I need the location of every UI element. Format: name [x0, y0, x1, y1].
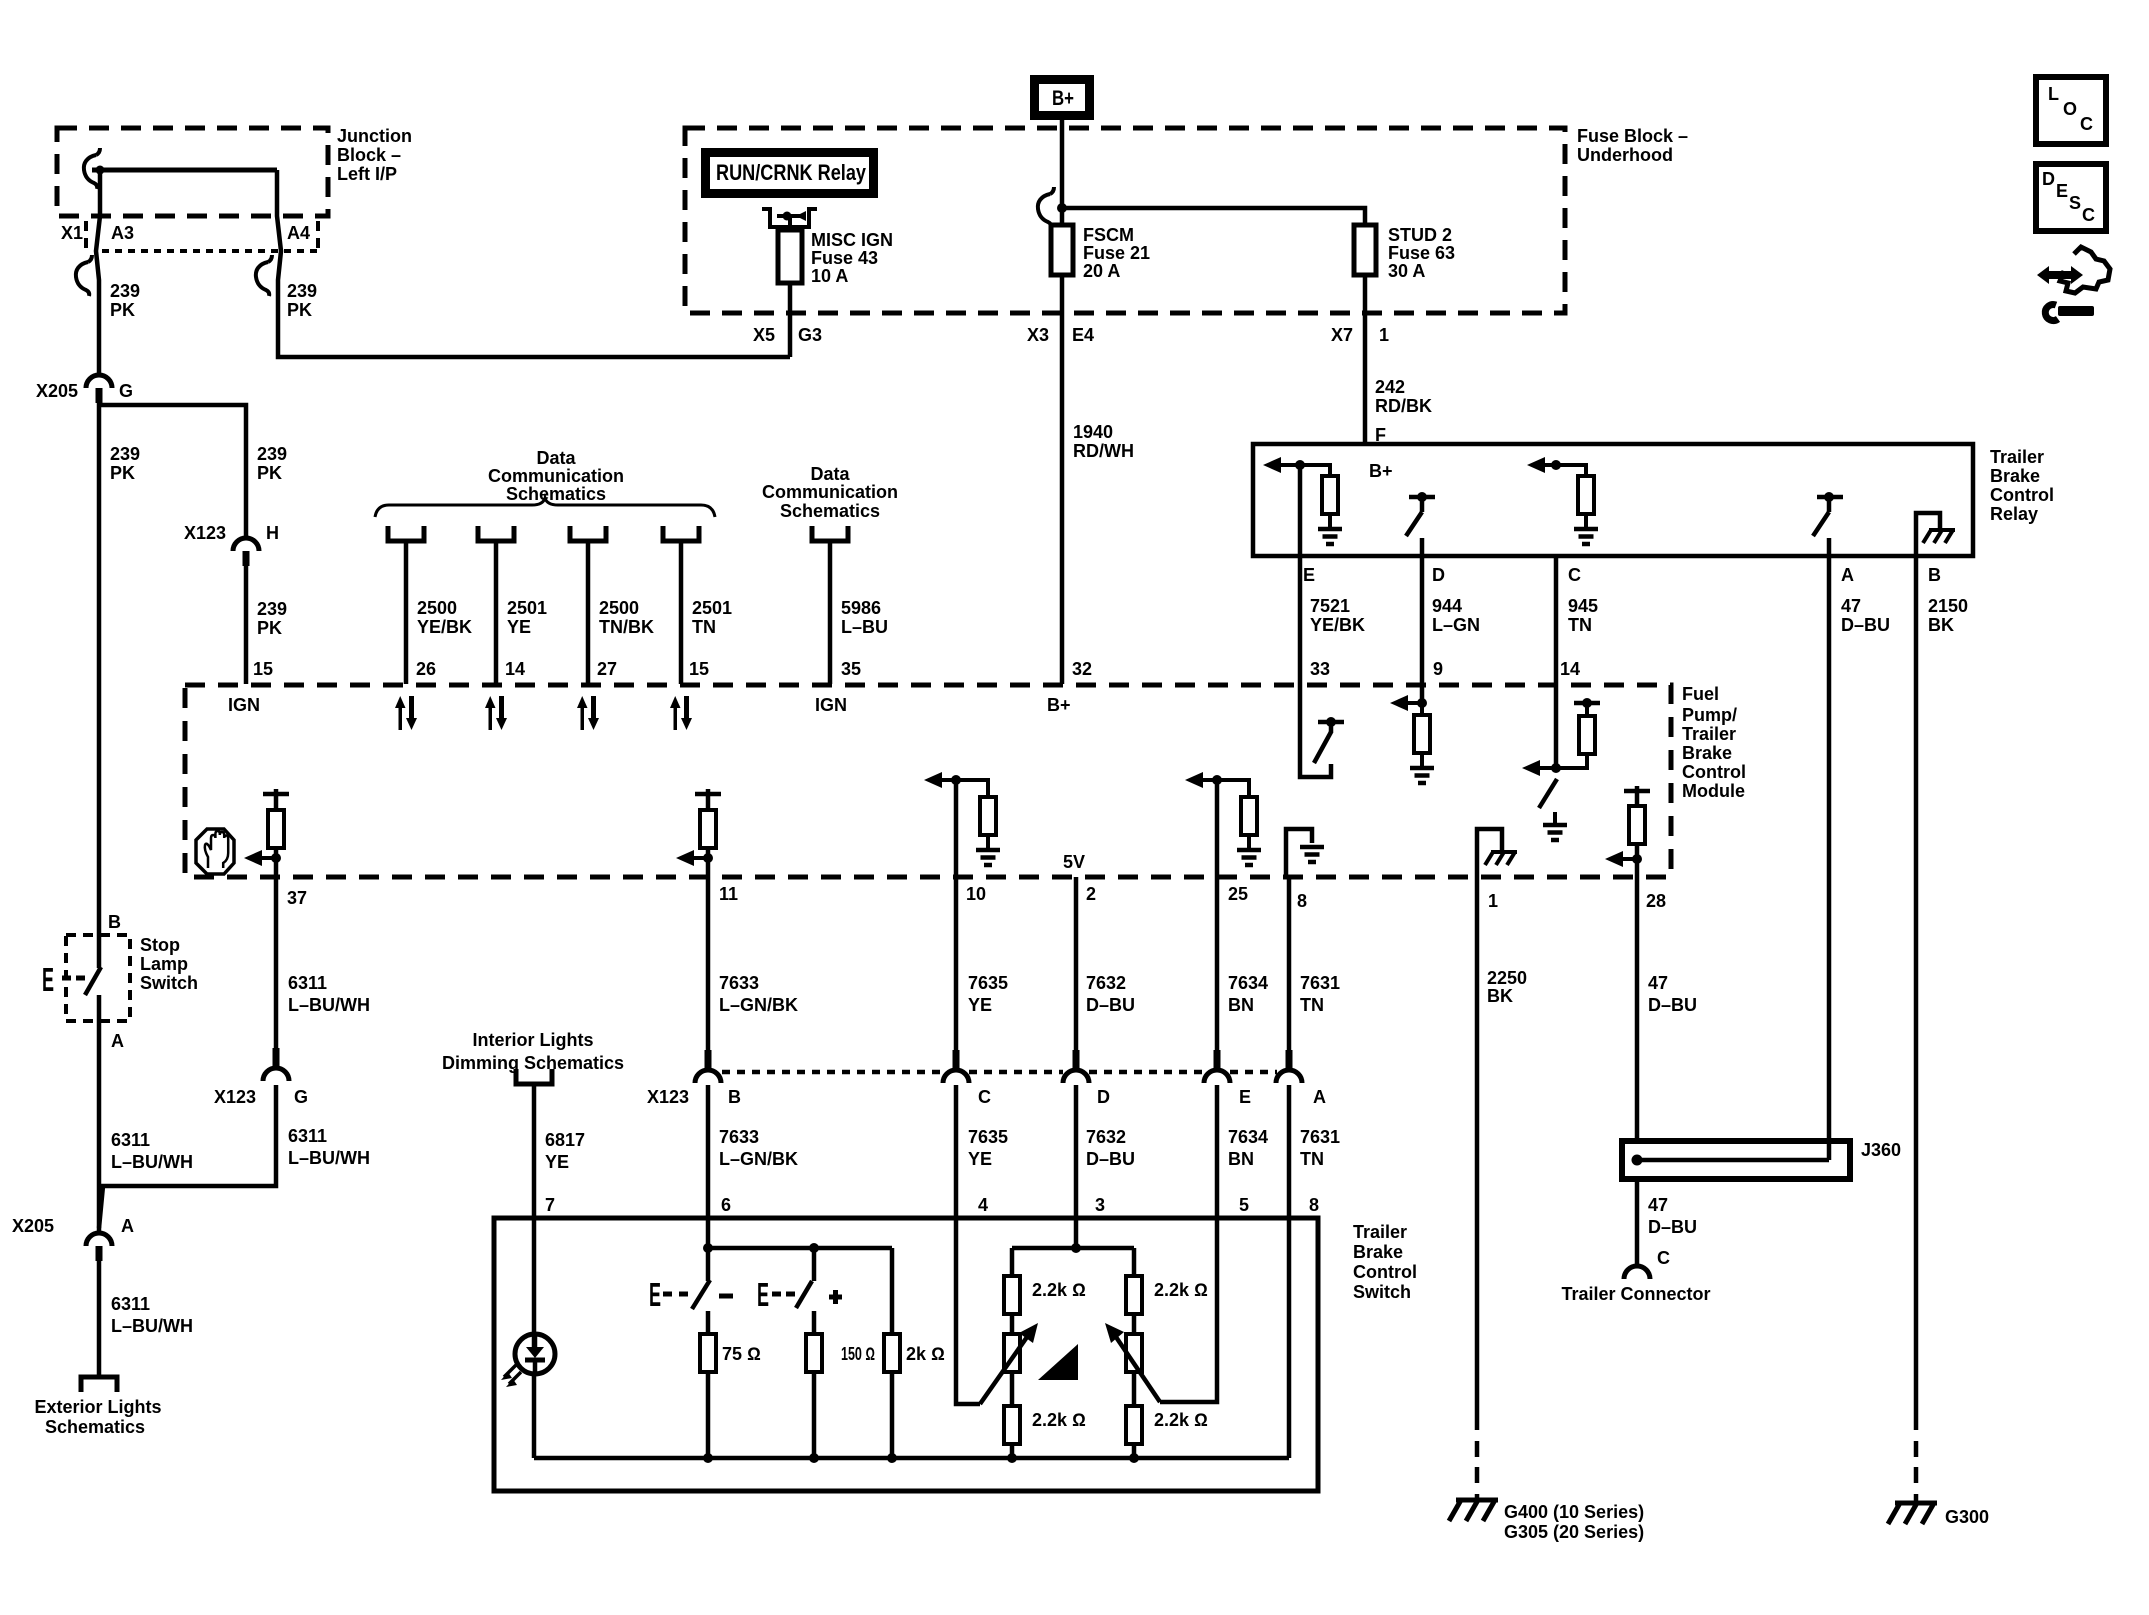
svg-text:Dimming Schematics: Dimming Schematics [442, 1053, 624, 1073]
wire STUD2 down to relay F [1363, 275, 1368, 444]
svg-text:C: C [2080, 114, 2093, 134]
resistor 2k ohm [890, 1248, 895, 1334]
svg-text:239: 239 [287, 281, 317, 301]
hook at B+ junction [1038, 187, 1054, 228]
terminal interior lights [516, 1069, 552, 1084]
svg-text:B+: B+ [1052, 87, 1074, 110]
svg-text:944: 944 [1432, 596, 1462, 616]
svg-text:YE: YE [545, 1152, 569, 1172]
trailer connector C [1624, 1266, 1650, 1279]
svg-text:7635: 7635 [968, 973, 1008, 993]
svg-text:BK: BK [1928, 615, 1954, 635]
wire 2500 TN/BK [586, 543, 591, 684]
wire B+ junction to STUD2 [1062, 208, 1365, 225]
connector X123 A [1276, 1050, 1302, 1083]
svg-text:7: 7 [545, 1195, 555, 1215]
svg-text:J360: J360 [1861, 1140, 1901, 1160]
svg-text:6311: 6311 [288, 1126, 327, 1146]
RUN/CRNK relay bold box [706, 153, 874, 194]
svg-text:C: C [978, 1087, 991, 1107]
pin 10 group: arrow dot resistor ground [951, 775, 961, 785]
left pot chain: 2.2k top [1010, 1248, 1015, 1276]
right pot variable element [1126, 1334, 1142, 1372]
wire X123-G to X205-A join [99, 1085, 276, 1228]
svg-text:Schematics: Schematics [45, 1417, 145, 1437]
right pot chain: 2.2k top [1132, 1248, 1137, 1276]
svg-text:RUN/CRNK Relay: RUN/CRNK Relay [716, 160, 867, 185]
wire pin28 down to J360 [1635, 877, 1640, 1141]
svg-text:X1: X1 [61, 223, 83, 243]
svg-text:8: 8 [1297, 891, 1307, 911]
wire fuse down to junction row [788, 283, 793, 357]
svg-text:H: H [266, 523, 279, 543]
wire pin 25 down [1215, 780, 1220, 877]
right wiper from pin5 [1160, 1218, 1217, 1402]
svg-text:7632: 7632 [1086, 1127, 1126, 1147]
bus bottom [534, 1456, 1289, 1461]
svg-text:47: 47 [1841, 596, 1861, 616]
svg-text:S: S [2069, 193, 2081, 213]
svg-text:G: G [119, 381, 133, 401]
service icon: double arrow with outline and wrench [2037, 266, 2083, 284]
svg-text:5986: 5986 [841, 598, 881, 618]
svg-text:MISC IGN: MISC IGN [811, 230, 893, 250]
wire 2501 TN [679, 543, 684, 684]
fuel pump / trailer brake control module dashed box [185, 685, 1671, 877]
LED indicator [515, 1334, 555, 1374]
resistor (relay coil E) [1322, 476, 1338, 514]
svg-text:PK: PK [110, 300, 135, 320]
wire J360 down to trailer connector [1635, 1179, 1640, 1266]
svg-text:2500: 2500 [417, 598, 457, 618]
svg-text:X123: X123 [647, 1087, 689, 1107]
svg-text:2k Ω: 2k Ω [906, 1344, 945, 1364]
svg-text:5V: 5V [1063, 852, 1085, 872]
clip hook at X1 below [76, 255, 92, 296]
wire LED to bus [532, 1374, 537, 1458]
wire pin 10 down [954, 780, 959, 877]
wires X123 row down to switch [706, 1085, 711, 1218]
wire pin10 to X123-C [954, 877, 959, 1050]
svg-text:Pump/: Pump/ [1682, 705, 1737, 725]
svg-text:TN: TN [1300, 995, 1324, 1015]
pin 8 internal ground [1286, 829, 1312, 877]
svg-text:2501: 2501 [692, 598, 732, 618]
wire pin8 to bus [1287, 1218, 1292, 1458]
svg-text:TN: TN [692, 617, 716, 637]
svg-text:2.2k Ω: 2.2k Ω [1032, 1410, 1086, 1430]
svg-text:Communication: Communication [762, 482, 898, 502]
svg-text:7633: 7633 [719, 973, 759, 993]
svg-text:Fuse Block –: Fuse Block – [1577, 126, 1688, 146]
svg-text:239: 239 [257, 599, 287, 619]
svg-text:YE: YE [968, 1149, 992, 1169]
clip hook at A4 below [256, 255, 272, 296]
svg-text:5: 5 [1239, 1195, 1249, 1215]
svg-text:7633: 7633 [719, 1127, 759, 1147]
svg-text:L–BU/WH: L–BU/WH [288, 995, 370, 1015]
svg-text:6: 6 [721, 1195, 731, 1215]
wire A3 down to X205-G [96, 170, 100, 374]
ground G400 [1449, 1500, 1498, 1521]
svg-text:X3: X3 [1027, 325, 1049, 345]
svg-text:PK: PK [110, 463, 135, 483]
svg-text:B+: B+ [1047, 695, 1071, 715]
wire from X205-G down and branch right [97, 403, 102, 968]
svg-text:2: 2 [1086, 884, 1096, 904]
terminal data comm 3 [570, 526, 606, 541]
svg-text:Trailer: Trailer [1353, 1222, 1407, 1242]
pot top bus [1074, 1218, 1079, 1248]
pin 9 internal: arrow dot resistor ground [1417, 698, 1427, 708]
svg-text:1: 1 [1488, 891, 1498, 911]
svg-text:14: 14 [1560, 659, 1580, 679]
svg-text:Control: Control [1682, 762, 1746, 782]
svg-text:Stop: Stop [140, 935, 180, 955]
svg-text:7631: 7631 [1300, 973, 1340, 993]
svg-text:L–GN: L–GN [1432, 615, 1480, 635]
pin 33 internal switch [1300, 685, 1331, 777]
svg-text:A: A [1313, 1087, 1326, 1107]
connector X205 A [86, 1233, 112, 1261]
svg-text:2501: 2501 [507, 598, 547, 618]
svg-text:L–BU: L–BU [841, 617, 888, 637]
wire D relay to module 9 [1420, 556, 1425, 703]
svg-text:Junction: Junction [337, 126, 412, 146]
ramp triangle [1038, 1344, 1078, 1380]
relay output bracket [764, 209, 815, 227]
svg-text:11: 11 [719, 884, 738, 904]
svg-text:239: 239 [110, 444, 140, 464]
svg-text:A: A [111, 1031, 124, 1051]
svg-text:Brake: Brake [1682, 743, 1732, 763]
ground (relay C) [1574, 529, 1598, 544]
connector X205 G [86, 375, 112, 403]
svg-text:Brake: Brake [1353, 1242, 1403, 1262]
svg-text:2500: 2500 [599, 598, 639, 618]
node junction dot A3 [96, 166, 105, 175]
svg-text:3: 3 [1095, 1195, 1105, 1215]
svg-text:YE/BK: YE/BK [417, 617, 472, 637]
svg-text:BK: BK [1487, 986, 1513, 1006]
svg-text:2150: 2150 [1928, 596, 1968, 616]
svg-text:PK: PK [257, 618, 282, 638]
svg-text:E: E [42, 961, 54, 998]
connector X123 D [1063, 1050, 1089, 1083]
svg-text:E: E [757, 1276, 769, 1313]
right pot 2.2k bottom [1126, 1406, 1142, 1444]
DESC box [2036, 164, 2106, 231]
svg-text:YE: YE [968, 995, 992, 1015]
svg-text:L–BU/WH: L–BU/WH [111, 1152, 193, 1172]
stop octagon with hand [196, 829, 234, 874]
svg-text:6311: 6311 [111, 1130, 150, 1150]
svg-text:8: 8 [1309, 1195, 1319, 1215]
svg-text:14: 14 [505, 659, 525, 679]
wire below blade [97, 995, 102, 1232]
svg-text:30 A: 30 A [1388, 261, 1425, 281]
splice pack J360 [1622, 1141, 1850, 1179]
svg-text:37: 37 [287, 888, 307, 908]
relay switch A [1817, 495, 1843, 500]
svg-text:7521: 7521 [1310, 596, 1350, 616]
svg-text:A4: A4 [287, 223, 310, 243]
svg-text:IGN: IGN [228, 695, 260, 715]
svg-text:G3: G3 [798, 325, 822, 345]
svg-text:6311: 6311 [288, 973, 327, 993]
connector row X1 dashes [84, 221, 88, 248]
svg-text:X205: X205 [36, 381, 78, 401]
left pot 2.2k bottom [1004, 1406, 1020, 1444]
wire pin7 to LED [532, 1218, 537, 1352]
ground G300 [1888, 1503, 1937, 1524]
connector X123 H [233, 538, 259, 566]
svg-text:Fuse 63: Fuse 63 [1388, 243, 1455, 263]
svg-text:L–BU/WH: L–BU/WH [288, 1148, 370, 1168]
svg-text:D–BU: D–BU [1086, 1149, 1135, 1169]
pin 25 group [1212, 775, 1222, 785]
wire bracket to fuse [788, 217, 792, 230]
wire A4 down then right to fuse X5/G3 [277, 170, 790, 357]
relay E: arrow + dot [1263, 457, 1281, 473]
svg-text:TN: TN [1568, 615, 1592, 635]
svg-text:239: 239 [110, 281, 140, 301]
svg-text:X7: X7 [1331, 325, 1353, 345]
svg-text:Underhood: Underhood [1577, 145, 1673, 165]
svg-text:FSCM: FSCM [1083, 225, 1134, 245]
svg-text:4: 4 [978, 1195, 988, 1215]
svg-text:7634: 7634 [1228, 973, 1268, 993]
svg-text:32: 32 [1072, 659, 1092, 679]
resistor (relay coil C) [1578, 476, 1594, 514]
svg-text:47: 47 [1648, 1195, 1668, 1215]
svg-text:E: E [1239, 1087, 1251, 1107]
svg-text:PK: PK [287, 300, 312, 320]
svg-text:E: E [2056, 181, 2068, 201]
wire below X205-A [97, 1261, 102, 1375]
svg-text:26: 26 [416, 659, 436, 679]
arrow left at 11 [690, 856, 708, 860]
svg-text:Fuse 21: Fuse 21 [1083, 243, 1150, 263]
stop lamp switch blade [85, 967, 101, 995]
svg-text:L–BU/WH: L–BU/WH [111, 1316, 193, 1336]
svg-text:28: 28 [1646, 891, 1666, 911]
trailer brake control switch box [494, 1218, 1318, 1491]
svg-text:D–BU: D–BU [1086, 995, 1135, 1015]
svg-text:E: E [649, 1276, 661, 1313]
svg-text:20 A: 20 A [1083, 261, 1120, 281]
wire pin1 down to G400 [1475, 877, 1480, 1430]
svg-text:X123: X123 [214, 1087, 256, 1107]
svg-text:Exterior Lights: Exterior Lights [34, 1397, 161, 1417]
svg-text:D: D [2042, 169, 2055, 189]
svg-text:D: D [1097, 1087, 1110, 1107]
node B+ junction dot [1057, 203, 1067, 213]
svg-text:D–BU: D–BU [1648, 1217, 1697, 1237]
svg-text:1: 1 [1379, 325, 1389, 345]
svg-text:33: 33 [1310, 659, 1330, 679]
svg-text:C: C [1657, 1248, 1670, 1268]
fuse FSCM Fuse 21 20A [1051, 225, 1073, 275]
svg-text:RD/WH: RD/WH [1073, 441, 1134, 461]
svg-text:B: B [1928, 565, 1941, 585]
svg-text:9: 9 [1433, 659, 1443, 679]
fuse STUD 2 Fuse 63 30A [1354, 225, 1376, 275]
wire pin11 to X123-B [706, 877, 711, 1050]
svg-text:X123: X123 [184, 523, 226, 543]
wire 6817 YE [532, 1086, 537, 1218]
B+ terminal box [1035, 80, 1090, 116]
svg-text:47: 47 [1648, 973, 1668, 993]
svg-text:7632: 7632 [1086, 973, 1126, 993]
svg-text:RD/BK: RD/BK [1375, 396, 1432, 416]
svg-text:Schematics: Schematics [506, 484, 606, 504]
svg-text:35: 35 [841, 659, 861, 679]
svg-text:2.2k Ω: 2.2k Ω [1032, 1280, 1086, 1300]
svg-text:Left I/P: Left I/P [337, 164, 397, 184]
relay switch D [1409, 495, 1435, 500]
svg-text:O: O [2063, 99, 2077, 119]
pin 28 internal resistor arrow [1624, 789, 1650, 794]
terminal data comm right [812, 526, 848, 541]
svg-text:G400 (10 Series): G400 (10 Series) [1504, 1502, 1644, 1522]
svg-text:Schematics: Schematics [780, 501, 880, 521]
left pot variable element [1004, 1334, 1020, 1372]
svg-text:TN/BK: TN/BK [599, 617, 654, 637]
svg-text:C: C [1568, 565, 1581, 585]
svg-text:75 Ω: 75 Ω [722, 1344, 761, 1364]
X123 row dotted link [722, 1070, 1277, 1075]
terminal data comm 4 [663, 526, 699, 541]
svg-text:10: 10 [966, 884, 986, 904]
svg-text:A3: A3 [111, 223, 134, 243]
svg-text:B: B [728, 1087, 741, 1107]
svg-text:G: G [294, 1087, 308, 1107]
svg-text:7631: 7631 [1300, 1127, 1340, 1147]
svg-text:IGN: IGN [815, 695, 847, 715]
wire E relay to module 33 [1298, 465, 1303, 685]
svg-text:7635: 7635 [968, 1127, 1008, 1147]
svg-text:G305 (20 Series): G305 (20 Series) [1504, 1522, 1644, 1542]
connector X123 G [263, 1048, 289, 1081]
wire C relay to module 14 [1554, 556, 1559, 768]
svg-text:STUD 2: STUD 2 [1388, 225, 1452, 245]
svg-text:6817: 6817 [545, 1130, 585, 1150]
svg-text:Trailer: Trailer [1990, 447, 2044, 467]
svg-text:Block –: Block – [337, 145, 401, 165]
fuse block underhood dashed box [685, 128, 1565, 313]
svg-text:Brake: Brake [1990, 466, 2040, 486]
pin 14 internal: dot arrow resistor switch ground [1551, 763, 1561, 773]
pin 1 internal chassis ground [1477, 829, 1502, 877]
svg-text:10 A: 10 A [811, 266, 848, 286]
svg-text:Control: Control [1353, 1262, 1417, 1282]
wire pin2 to X123-D [1074, 877, 1079, 1050]
terminal data comm 2 [478, 526, 514, 541]
svg-text:TN: TN [1300, 1149, 1324, 1169]
svg-text:B: B [108, 912, 121, 932]
trailer brake control relay box [1253, 444, 1973, 556]
svg-text:BN: BN [1228, 1149, 1254, 1169]
svg-text:2.2k Ω: 2.2k Ω [1154, 1280, 1208, 1300]
svg-text:Interior Lights: Interior Lights [473, 1030, 594, 1050]
svg-text:Trailer Connector: Trailer Connector [1561, 1284, 1710, 1304]
svg-text:1940: 1940 [1073, 422, 1113, 442]
wire A relay down to J360 [1827, 556, 1832, 1160]
connector X123 C [943, 1050, 969, 1083]
svg-text:Data: Data [536, 448, 576, 468]
clip hook at A3 top [84, 148, 100, 189]
svg-text:150 Ω: 150 Ω [841, 1344, 875, 1364]
svg-text:Switch: Switch [1353, 1282, 1411, 1302]
wire 37 to X123-G [274, 877, 279, 1050]
svg-text:15: 15 [253, 659, 273, 679]
relay B chassis ground [1916, 513, 1940, 556]
svg-text:Lamp: Lamp [140, 954, 188, 974]
svg-text:Trailer: Trailer [1682, 724, 1736, 744]
wire: junction block internal horizontal [92, 168, 277, 173]
svg-text:945: 945 [1568, 596, 1598, 616]
wire 5986 L-BU [828, 543, 833, 684]
svg-text:X5: X5 [753, 325, 775, 345]
svg-text:2250: 2250 [1487, 968, 1527, 988]
svg-text:L–GN/BK: L–GN/BK [719, 1149, 798, 1169]
svg-text:D–BU: D–BU [1841, 615, 1890, 635]
relay C: arrow + dot [1527, 457, 1545, 473]
wire B+ down [1060, 114, 1065, 225]
svg-text:239: 239 [257, 444, 287, 464]
svg-text:YE: YE [507, 617, 531, 637]
connector X123 E [1204, 1050, 1230, 1083]
wire pin25 to X123-E [1215, 877, 1220, 1050]
pin 37 resistor with pullup bar [263, 792, 289, 797]
resistor 75 ohm [706, 1311, 711, 1334]
svg-text:D–BU: D–BU [1648, 995, 1697, 1015]
fuse MISC IGN Fuse 43 10A [778, 230, 802, 283]
junction block - left I/P dashed box [57, 128, 328, 216]
stop lamp switch dashed box [66, 935, 130, 1021]
svg-text:Module: Module [1682, 781, 1745, 801]
wire 2501 YE [494, 543, 499, 684]
svg-text:L: L [2048, 84, 2059, 104]
wire pin8 to X123-A [1287, 877, 1292, 1050]
curly brace [375, 498, 715, 517]
svg-text:B+: B+ [1369, 461, 1393, 481]
wire B relay down to G300 [1914, 556, 1919, 1430]
svg-text:BN: BN [1228, 995, 1254, 1015]
svg-text:E: E [1303, 565, 1315, 585]
arrow left at 37 [258, 856, 276, 860]
svg-text:G300: G300 [1945, 1507, 1989, 1527]
svg-text:Fuse 43: Fuse 43 [811, 248, 878, 268]
wire pin6 into switch [706, 1218, 711, 1281]
wire X123-H down to module pin 15 [244, 566, 249, 684]
svg-text:X205: X205 [12, 1216, 54, 1236]
resistor 150 ohm [812, 1311, 817, 1334]
svg-text:A: A [1841, 565, 1854, 585]
svg-text:Communication: Communication [488, 466, 624, 486]
left wiper from pin4 [956, 1218, 980, 1404]
svg-text:Data: Data [810, 464, 850, 484]
svg-text:27: 27 [597, 659, 617, 679]
svg-text:15: 15 [689, 659, 709, 679]
svg-text:Control: Control [1990, 485, 2054, 505]
svg-text:PK: PK [257, 463, 282, 483]
pin 11 resistor with pullup bar [695, 792, 721, 797]
svg-text:Relay: Relay [1990, 504, 2038, 524]
terminal data comm 1 [388, 526, 424, 541]
svg-text:6311: 6311 [111, 1294, 150, 1314]
